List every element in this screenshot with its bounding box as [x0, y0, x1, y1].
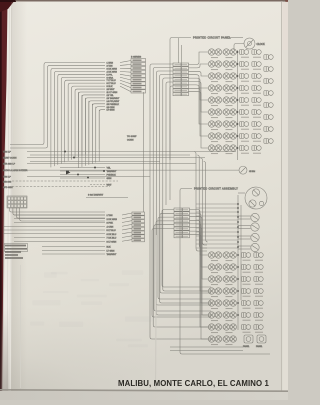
gauge connector strip [238, 213, 259, 251]
svg-text:1 TAN: 1 TAN [107, 214, 113, 217]
svg-text:PANEL: PANEL [243, 345, 250, 348]
bulb label smudges [211, 57, 218, 59]
svg-text:TAN/WHT: TAN/WHT [107, 170, 117, 173]
svg-text:6 DK BLU: 6 DK BLU [107, 234, 117, 236]
svg-text:17 GRN: 17 GRN [107, 110, 115, 112]
svg-text:DIR SIG: DIR SIG [3, 182, 11, 184]
svg-text:5 LT BLU: 5 LT BLU [107, 230, 116, 232]
svg-text:4 ORN: 4 ORN [107, 226, 114, 228]
svg-text:14 PPL/WHT: 14 PPL/WHT [107, 101, 120, 103]
svg-text:2 TAN: 2 TAN [107, 64, 113, 67]
junction dots and arrow [64, 151, 66, 153]
svg-text:4 DK GRN: 4 DK GRN [107, 71, 118, 73]
left side connector labels and bus wires [3, 152, 239, 179]
fuel gauge assembly [238, 187, 267, 209]
page crease [156, 235, 157, 390]
svg-text:13 TAN/WHT: 13 TAN/WHT [107, 97, 120, 100]
inter panel wires [194, 152, 207, 251]
svg-text:8 LT BLU: 8 LT BLU [107, 83, 116, 85]
left connector block [7, 196, 27, 208]
left instruction text block [5, 244, 28, 252]
label column 1 wire color codes [107, 61, 132, 112]
top edge dark line [15, 0, 288, 2]
svg-text:BLK: BLK [107, 247, 112, 249]
upper panel bus [237, 50, 239, 160]
svg-text:5 PPL: 5 PPL [107, 74, 114, 76]
svg-text:TAN/WHT: TAN/WHT [107, 253, 117, 256]
svg-text:6 GRA: 6 GRA [107, 76, 114, 79]
svg-text:GRN: GRN [107, 178, 112, 180]
svg-text:10 WHT: 10 WHT [107, 89, 116, 91]
svg-text:CONN: CONN [127, 140, 134, 142]
svg-text:8 GA TAN/WHT: 8 GA TAN/WHT [88, 194, 104, 197]
svg-text:7 DK BLU: 7 DK BLU [107, 238, 117, 240]
bleed-through ghosts [51, 272, 68, 275]
spine bottom fade [2, 310, 9, 391]
svg-text:HI BM: HI BM [249, 171, 255, 173]
svg-text:TRN LP: TRN LP [3, 177, 11, 179]
bottom below page [0, 391, 288, 400]
spine shadow on paper [11, 2, 27, 391]
svg-text:16 ORN: 16 ORN [107, 107, 115, 109]
svg-text:WHT: WHT [107, 185, 113, 187]
left margin crease [20, 265, 22, 388]
bus end labels [60, 92, 255, 212]
wire harness nest top-left [10, 63, 105, 145]
upper printed circuit panel outline and label [170, 36, 243, 161]
svg-text:8 LT GRN: 8 LT GRN [107, 241, 117, 243]
svg-text:2 DK GRN: 2 DK GRN [107, 219, 118, 221]
svg-text:PRINTED CIRCUIT PANEL: PRINTED CIRCUIT PANEL [193, 36, 231, 40]
upper stack to bulb wires [189, 52, 209, 65]
svg-text:9 BLK: 9 BLK [107, 86, 113, 88]
right page edge [281, 2, 283, 391]
svg-text:1 BRN: 1 BRN [107, 63, 114, 65]
top-left cover wedge [0, 0, 15, 12]
binding spine [0, 0, 8, 391]
svg-text:TO SUSP: TO SUSP [127, 136, 137, 138]
lower panel bulb pairs [208, 252, 221, 258]
svg-text:PNK/BLK: PNK/BLK [107, 175, 117, 177]
lower panel right bulb grid [241, 253, 266, 348]
svg-text:CLOCK: CLOCK [257, 43, 266, 46]
svg-text:PANEL: PANEL [256, 345, 263, 348]
dashed sensor wires [3, 181, 128, 198]
svg-text:3 DK GRN: 3 DK GRN [107, 68, 118, 70]
svg-text:3 PNK: 3 PNK [107, 223, 114, 225]
bottom-left corner shading [0, 300, 160, 391]
svg-text:MALIBU, MONTE CARLO, EL CAMINO: MALIBU, MONTE CARLO, EL CAMINO 1 [118, 379, 270, 388]
upper panel bulb pairs [208, 49, 221, 55]
lower panel feed bus and junctions [196, 195, 241, 330]
upper connector stack [178, 38, 180, 63]
label column 2 wire color codes [3, 213, 132, 256]
svg-text:12 YEL: 12 YEL [107, 95, 115, 97]
page fore-edge stripes [3, 0, 14, 391]
svg-text:15 PNK/BLK: 15 PNK/BLK [107, 104, 120, 106]
svg-text:LT GRN: LT GRN [107, 251, 115, 253]
svg-text:11 LT GRN: 11 LT GRN [107, 92, 118, 94]
svg-text:TRN LP: TRN LP [3, 152, 11, 154]
upper panel right bulb grid [239, 50, 248, 55]
svg-text:PRINTED CIRCUIT ASSEMBLY: PRINTED CIRCUIT ASSEMBLY [194, 187, 238, 191]
connector box column 2 [132, 212, 145, 215]
svg-text:7 LT BLU: 7 LT BLU [107, 80, 116, 82]
main diagram ink [3, 36, 273, 355]
svg-text:B SERIES: B SERIES [131, 57, 142, 59]
lower connector stack [174, 208, 182, 211]
central long wires [150, 64, 211, 339]
lower panel bottom wires [170, 346, 243, 348]
clock connector [234, 38, 265, 50]
lower printed circuit panel outline and label [180, 187, 270, 355]
